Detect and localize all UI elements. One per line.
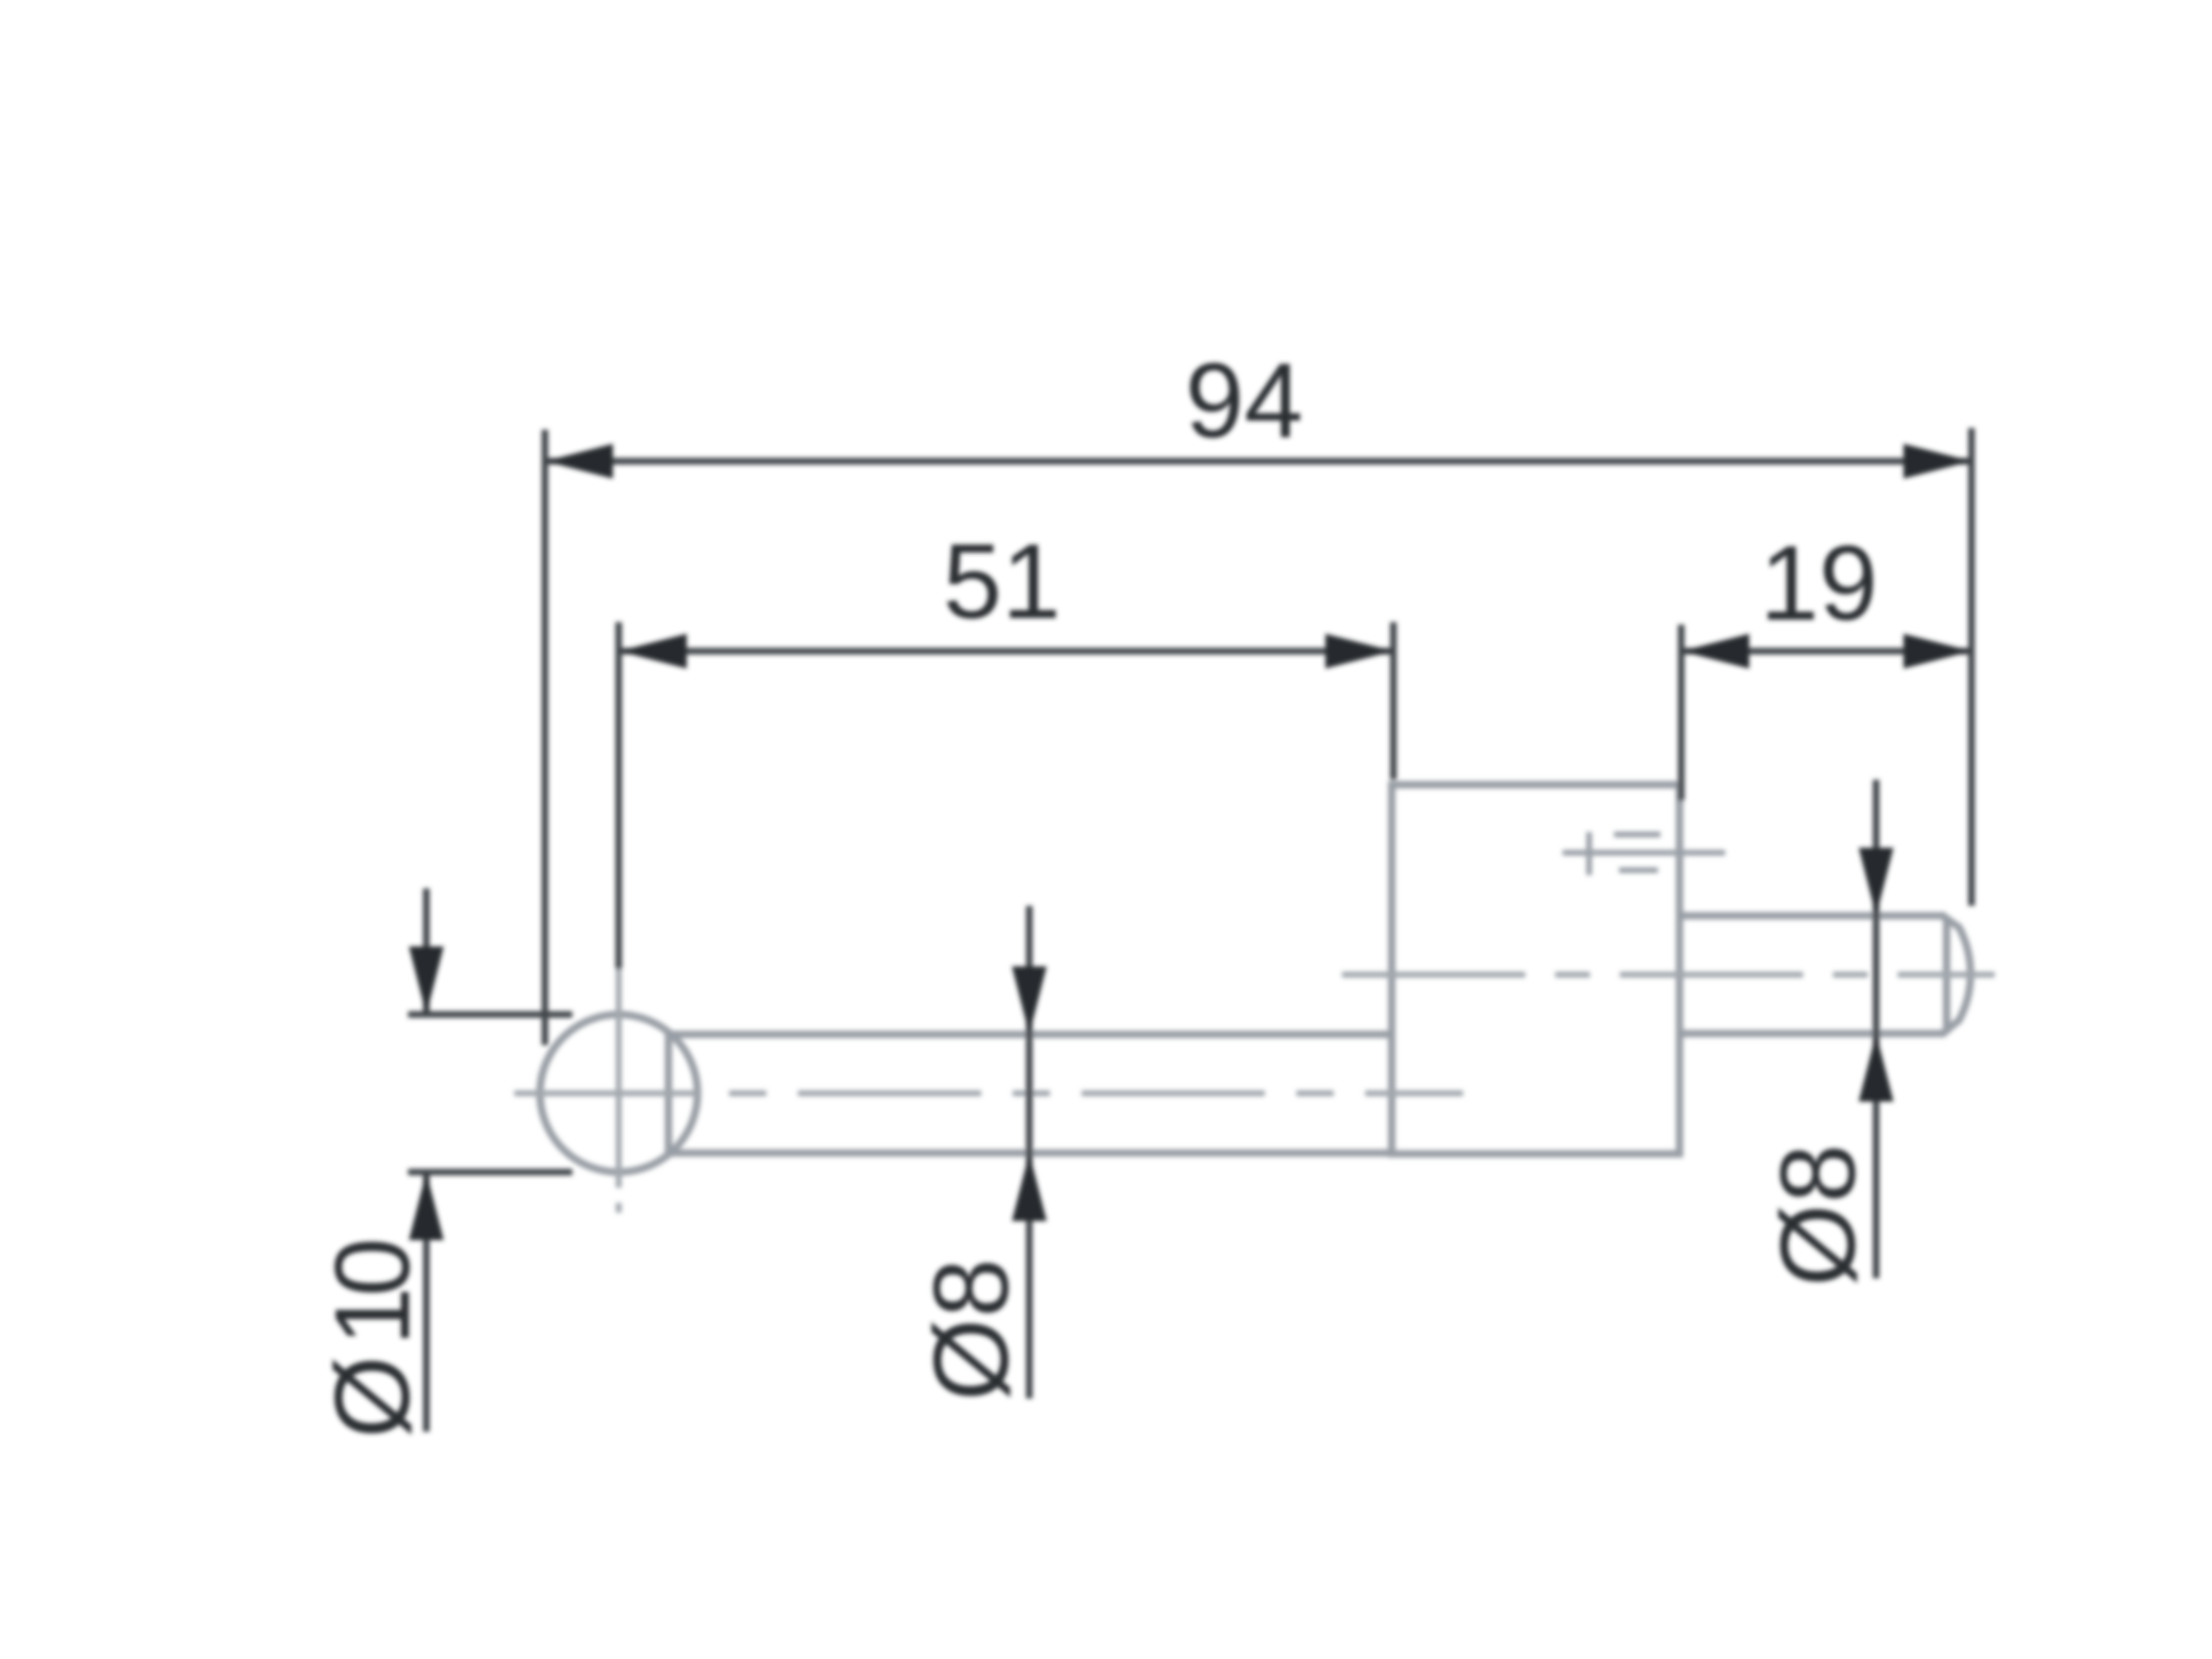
svg-text:51: 51: [943, 523, 1061, 641]
svg-text:Ø 10: Ø 10: [314, 1238, 432, 1438]
svg-text:19: 19: [1760, 524, 1878, 643]
svg-text:Ø 8: Ø 8: [1759, 1144, 1878, 1287]
svg-text:94: 94: [1185, 342, 1303, 460]
svg-text:Ø 8: Ø 8: [912, 1258, 1031, 1401]
